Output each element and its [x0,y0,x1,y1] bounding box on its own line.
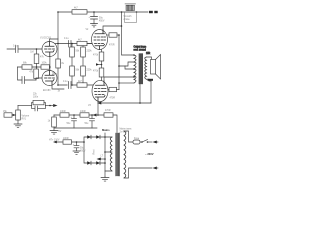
capacitor C1 input [7,46,42,53]
speaker LS1 [146,53,161,81]
resistor R21 NFB [32,103,34,106]
svg-text:RV1: RV1 [22,119,27,121]
svg-text:2x 6.3V: 2x 6.3V [120,132,128,134]
resistor R23 [63,140,72,144]
svg-text:25u: 25u [52,72,57,76]
svg-text:470k: 470k [93,71,99,73]
resistor R13 grid leak V2 [101,49,103,52]
resistor R20 [4,113,12,117]
wire V1b cathode [52,85,64,89]
fuse FS1 [133,140,140,144]
wire NFB run [101,102,152,104]
transformer T1 secondary [145,57,147,79]
svg-text:choke: choke [124,19,131,21]
svg-text:470R: 470R [105,110,111,112]
capacitor C5 [68,81,73,89]
wire coupling bottom line [58,84,93,86]
wire secondary return [148,79,154,81]
capacitor C10 [76,141,78,143]
transformer T1 primary [134,55,136,83]
node bias row junctions [36,66,51,68]
wire V2 plate to transformer [103,12,122,30]
wire HT out arrow [149,11,158,13]
transformer T1 core [139,54,143,85]
node NFB arrow [46,105,54,107]
resistor R12 screen V2 [108,34,110,36]
svg-text:100R: 100R [63,138,69,140]
tube V1b triode [42,71,57,86]
wire mains neutral [124,168,152,178]
tube V3 EL84 bottom [92,80,108,101]
resistor R14 grid leak V3 [99,68,104,77]
resistor R1 grid leak [34,48,39,67]
wire UL tap 1 [119,62,134,66]
node T2 secondary junctions [104,136,106,164]
svg-text:470k: 470k [93,55,99,57]
capacitor C3 decouple [57,44,59,60]
resistor R17 [80,113,89,117]
power supply: HT line [56,141,84,143]
node primary dots [133,54,135,78]
wire screen line [118,35,120,90]
choke L1 [125,4,137,23]
wire V1a plate lead [50,39,59,42]
svg-text:450V: 450V [99,21,105,23]
wire LT tap [101,158,106,160]
node B+ junction dots [57,11,137,13]
wire mains live [124,131,133,142]
svg-text:Smooth: Smooth [124,15,133,18]
capacitor C8 [73,114,75,116]
svg-text:V1 ECC83: V1 ECC83 [40,38,52,40]
svg-text:1M: 1M [30,52,33,54]
capacitor C9 [91,114,93,116]
wire CT to B+ [125,66,134,69]
resistor R5 R6 grid column 1 [71,44,73,48]
ground T2 [101,177,109,181]
node bias point [96,63,102,65]
resistor R18 [104,113,113,117]
svg-text:Mains trans: Mains trans [120,128,133,131]
tube V1a triode [42,42,57,57]
transformer T2 mains [104,131,126,178]
capacitor C6 NFB [32,106,46,111]
svg-text:Fuse: Fuse [134,138,140,140]
node coupling line left junction [57,84,59,86]
capacitor C2 [22,77,42,84]
resistor R10 [77,83,87,87]
wire V3 cathode down [97,101,99,115]
svg-text:100n: 100n [33,97,39,99]
wire V3 plate [104,77,134,80]
svg-text:HT+ 310V: HT+ 310V [49,140,60,142]
wire V1a anode line [55,43,92,45]
resistor R4 [41,65,50,69]
node cathode row arrow [93,114,99,117]
wire cathode bias row [54,114,104,116]
svg-text:~ 230V: ~ 230V [145,152,154,156]
node LT arrow [97,158,101,161]
wire NFB to pot [18,105,32,107]
svg-text:450V: 450V [80,151,86,153]
svg-text:130R: 130R [60,111,66,113]
svg-text:0.1u: 0.1u [63,81,68,83]
svg-text:Volume: Volume [22,116,30,118]
node mains neutral terminal [153,167,157,170]
svg-text:130R: 130R [80,111,86,113]
svg-text:220k: 220k [87,51,93,53]
svg-text:0.1u: 0.1u [64,38,69,40]
capacitor C7 reservoir [91,12,98,24]
wire coupling top: cap C4 and grid stopper R9 [69,41,72,48]
node NFB pickup arrow [97,102,141,105]
node screen line junctions [118,34,120,84]
wire 0V rail [54,127,97,129]
svg-text:15R: 15R [146,53,151,55]
node coupling line junction [71,84,73,86]
svg-text:0V: 0V [59,131,62,133]
wire grid V1b loop [18,67,23,80]
wire UL tap 2 [119,82,134,84]
svg-text:Rect: Rect [93,149,96,154]
node anode line junctions [57,43,73,45]
resistor R16 [60,113,69,117]
ground below C7 [91,24,98,27]
resistor R19 pot volume [17,106,19,111]
resistor R2 [22,65,32,69]
svg-text:220k: 220k [87,70,93,72]
resistor R22 [53,115,55,117]
node V2 plate junction [121,25,123,27]
resistor R3 [36,67,38,69]
node mains live terminal [153,141,157,144]
resistor R7 R11 grid column 2 [82,46,84,47]
wire V1a cathode / V1b plate [49,57,51,71]
svg-text:100k: 100k [42,63,48,65]
resistor R8 on B+ rail [72,10,87,14]
bridge rectifier D1-D4 [83,135,105,165]
svg-text:470R: 470R [109,45,115,47]
switch S1 [142,140,148,142]
tube V2 EL84 top [92,30,108,50]
svg-text:Output trans: Output trans [134,46,147,49]
svg-text:0.1u: 0.1u [13,46,18,48]
node HT+ arrow [53,141,57,144]
wire B+ rail [58,11,148,13]
resistor R15 screen V3 [108,89,109,91]
svg-text:ECC83: ECC83 [43,90,51,92]
svg-text:sect. wound: sect. wound [134,49,147,52]
wire V1 supply drop [57,12,59,44]
svg-text:470R: 470R [110,98,116,100]
svg-text:Mains: Mains [102,128,110,132]
